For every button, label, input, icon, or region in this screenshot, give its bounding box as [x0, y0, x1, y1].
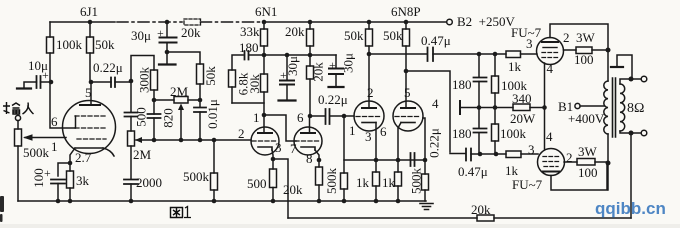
- svg-text:FU~7: FU~7: [511, 25, 542, 40]
- svg-text:6: 6: [51, 114, 58, 129]
- svg-text:5: 5: [85, 85, 92, 100]
- svg-text:20k: 20k: [471, 202, 491, 217]
- svg-text:30μ: 30μ: [285, 56, 300, 76]
- svg-text:3W: 3W: [576, 30, 596, 45]
- svg-text:100: 100: [578, 165, 598, 180]
- svg-text:6: 6: [380, 124, 387, 139]
- svg-text:180: 180: [452, 126, 472, 141]
- svg-text:0.22μ: 0.22μ: [93, 60, 123, 75]
- svg-text:1k: 1k: [508, 59, 522, 74]
- svg-text:1k: 1k: [356, 175, 370, 190]
- svg-text:2: 2: [566, 150, 573, 165]
- svg-text:30μ: 30μ: [341, 53, 356, 73]
- svg-text:0.22μ: 0.22μ: [427, 128, 442, 158]
- svg-text:3W: 3W: [578, 144, 598, 159]
- svg-text:30μ: 30μ: [131, 28, 151, 43]
- svg-text:20k: 20k: [283, 182, 303, 197]
- svg-text:0.47μ: 0.47μ: [421, 33, 451, 48]
- svg-text:500: 500: [247, 176, 267, 191]
- svg-text:2M: 2M: [133, 147, 152, 162]
- svg-text:2M: 2M: [170, 84, 189, 99]
- svg-text:3k: 3k: [76, 173, 90, 188]
- svg-text:50k: 50k: [203, 66, 218, 86]
- svg-text:500: 500: [134, 107, 149, 127]
- svg-text:3: 3: [275, 140, 282, 155]
- svg-text:+400V: +400V: [568, 111, 605, 126]
- svg-text:100: 100: [574, 52, 594, 67]
- svg-text:20W: 20W: [510, 111, 536, 126]
- svg-text:7: 7: [290, 141, 297, 156]
- svg-text:0.01μ: 0.01μ: [205, 99, 220, 129]
- svg-text:2000: 2000: [136, 175, 162, 190]
- svg-text:4: 4: [546, 129, 553, 144]
- svg-text:1: 1: [51, 139, 58, 154]
- svg-text:+: +: [280, 68, 287, 82]
- svg-text:3: 3: [528, 142, 535, 157]
- svg-text:20k: 20k: [181, 25, 201, 40]
- svg-text:4: 4: [547, 61, 554, 76]
- svg-text:8: 8: [306, 151, 313, 166]
- svg-text:20k: 20k: [311, 62, 326, 82]
- svg-text:6: 6: [297, 110, 304, 125]
- svg-text:300k: 300k: [137, 67, 152, 94]
- svg-text:100k: 100k: [500, 126, 527, 141]
- svg-text:0.22μ: 0.22μ: [318, 92, 348, 107]
- svg-text:2: 2: [367, 85, 374, 100]
- svg-text:100k: 100k: [56, 37, 83, 52]
- svg-text:2.7: 2.7: [75, 150, 92, 165]
- svg-text:2: 2: [563, 30, 570, 45]
- svg-text:340: 340: [512, 91, 532, 106]
- svg-text:500k: 500k: [183, 169, 210, 184]
- svg-text:5: 5: [404, 85, 411, 100]
- svg-text:500k: 500k: [409, 168, 424, 195]
- svg-text:3: 3: [365, 129, 372, 144]
- svg-text:30k: 30k: [247, 74, 262, 94]
- svg-text:180: 180: [239, 40, 259, 55]
- svg-text:820: 820: [161, 108, 176, 128]
- svg-text:1k: 1k: [382, 175, 396, 190]
- svg-text:+: +: [44, 166, 51, 180]
- svg-text:8Ω: 8Ω: [627, 101, 644, 116]
- svg-text:qqibb.cn: qqibb.cn: [595, 199, 666, 218]
- svg-text:50k: 50k: [344, 28, 364, 43]
- svg-text:1: 1: [253, 110, 260, 125]
- svg-text:B2 +250V: B2 +250V: [457, 14, 516, 29]
- svg-text:6N1: 6N1: [255, 4, 277, 19]
- svg-text:0.47μ: 0.47μ: [458, 164, 488, 179]
- svg-text:4: 4: [432, 96, 439, 111]
- svg-text:6J1: 6J1: [80, 4, 98, 19]
- svg-text:+: +: [329, 58, 336, 72]
- svg-text:50k: 50k: [95, 37, 115, 52]
- svg-text:6N8P: 6N8P: [391, 4, 421, 19]
- svg-text:+: +: [42, 68, 49, 82]
- svg-text:20k: 20k: [285, 24, 305, 39]
- svg-text:1k: 1k: [505, 163, 519, 178]
- svg-text:2: 2: [238, 126, 245, 141]
- svg-text:1: 1: [349, 123, 356, 138]
- svg-text:FU~7: FU~7: [512, 177, 543, 192]
- svg-text:50k: 50k: [383, 28, 403, 43]
- svg-text:500k: 500k: [23, 145, 50, 160]
- svg-text:500k: 500k: [324, 168, 339, 195]
- svg-text:33k: 33k: [240, 24, 260, 39]
- svg-text:+: +: [157, 26, 164, 40]
- svg-text:180: 180: [452, 77, 472, 92]
